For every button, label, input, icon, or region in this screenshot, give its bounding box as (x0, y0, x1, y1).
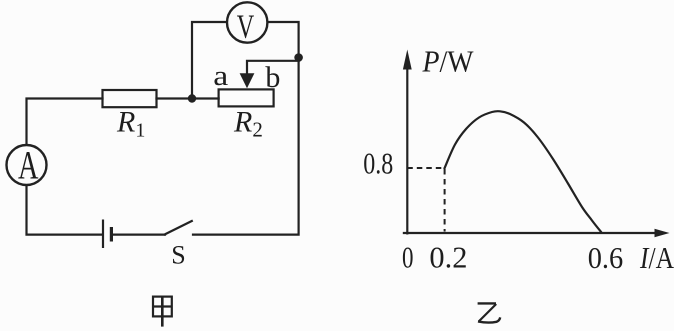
R2 slider arrow (240, 73, 255, 88)
svg-text:0.2: 0.2 (429, 240, 467, 275)
svg-text:0.6: 0.6 (588, 240, 624, 275)
wire: voltmeter right lead down to node B (268, 22, 299, 54)
label 乙 (drawn glyph) (478, 303, 501, 322)
node B (voltmeter / slider / right rail junction) (294, 53, 303, 62)
svg-text:V: V (237, 9, 255, 46)
wire: ammeter down to battery (27, 185, 103, 234)
svg-text:S: S (171, 241, 185, 270)
wire: battery to switch pivot (113, 234, 165, 236)
resistor R1 body (103, 90, 157, 107)
svg-text:I/A: I/A (639, 240, 674, 275)
label 甲 (drawn glyph) (153, 297, 172, 327)
switch S blade (165, 221, 192, 234)
ammeter A (7, 142, 47, 187)
P-I curve (445, 111, 602, 232)
x-axis (I) (404, 232, 656, 234)
svg-text:0: 0 (402, 239, 414, 274)
x-axis arrowhead (655, 229, 670, 238)
wire: node B to R2 slider (247, 61, 299, 74)
svg-text:P/W: P/W (422, 44, 475, 79)
battery: long plate (102, 220, 104, 249)
voltmeter V (227, 2, 267, 45)
wire: left rail from R1 to ammeter (27, 99, 103, 145)
dashed guide: I = 0.2 (444, 169, 446, 232)
rheostat R2 body (219, 89, 274, 106)
svg-text:0.8: 0.8 (363, 146, 393, 181)
y-axis arrowhead (403, 50, 412, 70)
wire: R1 to R2 through node A (157, 97, 219, 99)
svg-text:A: A (18, 142, 39, 187)
svg-text:R2: R2 (233, 106, 263, 142)
svg-text:b: b (265, 61, 280, 94)
battery: short plate (110, 227, 113, 242)
dashed guide: P = 0.8 (407, 167, 444, 169)
node A (R1-R2-voltmeter junction) (188, 94, 196, 102)
y-axis (P) (406, 66, 408, 233)
svg-text:R1: R1 (116, 106, 145, 142)
svg-text:a: a (213, 61, 229, 92)
wire: switch to right rail and up to node B (193, 61, 299, 235)
wire: voltmeter left lead down to R1-R2 junction (192, 22, 227, 95)
